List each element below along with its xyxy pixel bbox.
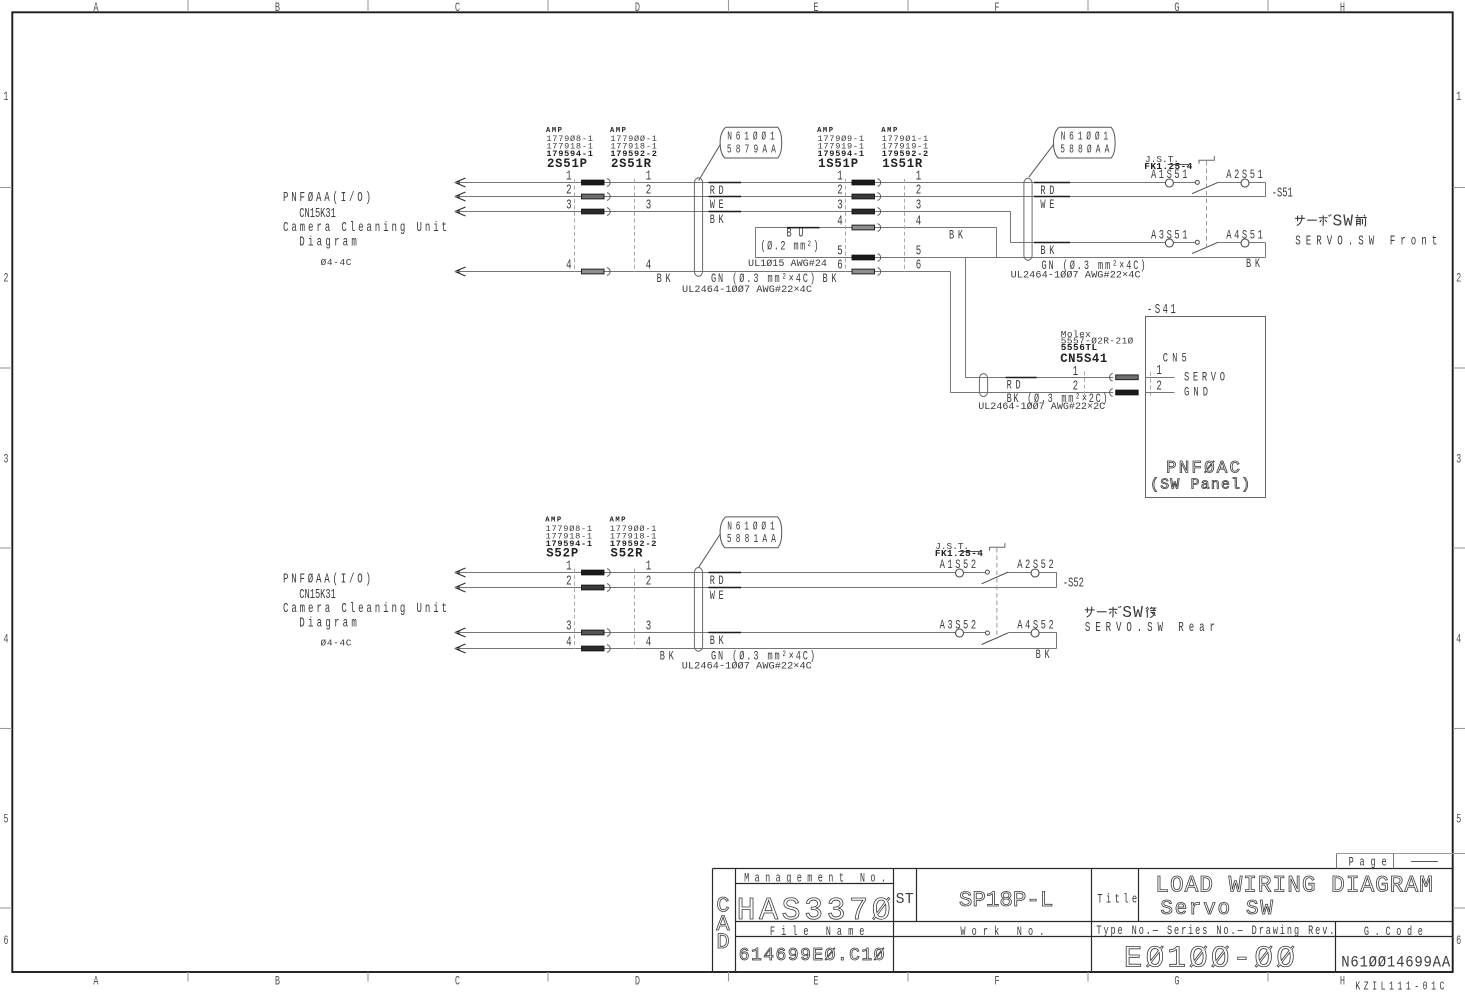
2S51 dashed separation lines (574, 179, 576, 272)
switch actuator bracket (lower) (990, 543, 1005, 551)
cable N61001 5879AA callout (699, 127, 782, 180)
switch loop vertical -S52 upper (1056, 573, 1058, 588)
arrow wire 2 (lower) (454, 583, 465, 592)
switch S52 lower fixed contact dot (985, 631, 989, 635)
svg-text:6: 6 (1456, 934, 1461, 948)
svg-text:-S51: -S51 (1272, 185, 1293, 200)
svg-text:SW: SW (1333, 213, 1354, 231)
svg-text:2: 2 (1156, 379, 1162, 394)
svg-text:1: 1 (837, 169, 843, 184)
arrow wire 4 (454, 267, 465, 276)
wire 3 BK segment to switch (1011, 242, 1166, 244)
svg-text:G: G (1174, 2, 1179, 16)
svg-text:3: 3 (837, 198, 843, 213)
wire blade to A2S52 (1008, 572, 1031, 574)
svg-text:6: 6 (3, 934, 8, 948)
wire 1 RD net (lower) (455, 572, 956, 574)
svg-text:(Ø.2 mm²): (Ø.2 mm²) (761, 240, 819, 254)
svg-text:HAS337Ø: HAS337Ø (737, 894, 891, 929)
wire 3 BK net (lower) (455, 632, 956, 634)
wire pin6 drop to CN5S41 (950, 272, 952, 393)
switch J.S.T. FK1.25-4 label (lower) (935, 541, 983, 559)
svg-text:UL2464-1ØØ7 AWG#22×2C: UL2464-1ØØ7 AWG#22×2C (978, 401, 1105, 413)
wire A3S52 to contact dot (964, 632, 986, 634)
svg-text:B: B (275, 2, 281, 16)
wire 3 left segment (455, 211, 1011, 213)
arrow wire 4 (lower) (454, 644, 465, 653)
svg-text:3: 3 (1456, 453, 1461, 467)
svg-text:CN5: CN5 (1163, 352, 1187, 366)
svg-text:3: 3 (646, 198, 652, 213)
svg-text:4: 4 (646, 258, 652, 273)
svg-text:2: 2 (1456, 272, 1461, 286)
wire label RD (S52 cable) (709, 573, 742, 589)
svg-text:GND: GND (1184, 386, 1208, 400)
svg-text:4: 4 (1456, 633, 1461, 647)
wire 3 drop (1010, 212, 1012, 243)
label CAD (716, 894, 730, 956)
connector CN5S41 part numbers Molex (1060, 329, 1133, 366)
S52 contact pin1 (582, 569, 611, 577)
CN5S41 contact pin1 (1110, 373, 1139, 381)
2S51 contact pin2 (582, 193, 611, 201)
1S51 contact pin5 (852, 254, 881, 262)
svg-text:4: 4 (646, 635, 652, 650)
wire pin5 drop to CN5S41 (965, 258, 967, 378)
wire label RD (left cable) (709, 183, 742, 199)
svg-text:3: 3 (566, 198, 572, 213)
wire label BK (left cable) (709, 212, 742, 228)
svg-text:4: 4 (3, 633, 8, 647)
terminal A2S51 (1241, 179, 1249, 187)
1S51 contact pin1 (852, 179, 881, 187)
terminal A1S51 (1165, 179, 1173, 187)
switch S52 lower blade (982, 633, 1009, 645)
wire A2S52 to -S52 vertical (1039, 572, 1056, 574)
switch S52 upper fixed contact dot (985, 570, 989, 574)
wire A4S52 to -S52 vertical (1039, 632, 1056, 634)
svg-text:H: H (1340, 975, 1345, 989)
svg-text:H: H (1340, 2, 1345, 16)
svg-text:CN15K31: CN15K31 (299, 587, 336, 602)
svg-text:PNFØAA(I/O): PNFØAA(I/O) (283, 572, 371, 587)
arrow wire 2 (454, 192, 465, 201)
PNF0AC SW Panel box (1146, 317, 1266, 498)
1S51 pin numbers right (916, 169, 922, 273)
wire label RD (right cable) (1034, 183, 1070, 199)
wire label WE (S52 cable) (709, 588, 742, 604)
wire A4S51 to -S51 vertical (1249, 242, 1265, 244)
terminal A4S52 (1031, 629, 1039, 637)
wire A2S51 to -S51 vertical (1249, 182, 1265, 184)
wire label BK (right cable) (1034, 243, 1070, 259)
svg-text:G: G (1174, 975, 1179, 989)
svg-text:5: 5 (3, 813, 8, 827)
terminal A1S52 (956, 569, 964, 577)
connector 1S51R part numbers (881, 127, 928, 171)
connector 1S51P part numbers (817, 127, 864, 171)
wire 2 WE return (lower) (455, 587, 1057, 589)
2S51 contact pin1 (582, 179, 611, 187)
wire label BK (S52 cable) (709, 633, 742, 649)
wire A1S51 to contact dot (1174, 182, 1196, 184)
svg-text:D: D (716, 930, 729, 955)
terminal A2S52 (1031, 569, 1039, 577)
svg-text:N61ØØ14699AA: N61ØØ14699AA (1341, 955, 1450, 972)
svg-text:2: 2 (646, 183, 652, 198)
svg-text:C: C (455, 975, 460, 989)
label PNF0AA(I/O) Camera Cleaning Unit Diagram (lower) (283, 572, 447, 648)
svg-text:D: D (635, 2, 640, 16)
connector 2S51R part numbers (610, 127, 657, 171)
S52 contact pin2 (582, 584, 611, 592)
CN5 pin 1 stub (1146, 364, 1175, 379)
svg-text:4: 4 (837, 214, 843, 229)
S52 pin numbers left (566, 559, 572, 650)
svg-text:-S52: -S52 (1063, 575, 1084, 590)
svg-text:(SW Panel): (SW Panel) (1150, 478, 1250, 494)
switch S51 upper blade (1192, 182, 1218, 193)
label Servo SW Rear (Japanese) (1085, 604, 1156, 622)
svg-text:2: 2 (837, 183, 843, 198)
svg-text:UL2464-1ØØ7 AWG#22×4C: UL2464-1ØØ7 AWG#22×4C (682, 284, 812, 296)
connector 2S51P part numbers (546, 127, 593, 171)
svg-text:1: 1 (566, 559, 572, 574)
wire CN5S41 pin1 RD (966, 377, 1114, 379)
svg-text:1: 1 (1073, 365, 1079, 380)
svg-text:D: D (635, 975, 640, 989)
wire label RD (S41 cable) (1006, 378, 1037, 394)
svg-text:2: 2 (646, 574, 652, 589)
1S51 pin numbers left (837, 169, 843, 273)
1S51 contact pin3 (852, 208, 881, 216)
svg-text:B: B (275, 975, 281, 989)
svg-text:5: 5 (837, 244, 843, 259)
cable sheath oval CN5S41 (979, 374, 987, 397)
svg-text:3: 3 (566, 619, 572, 634)
CN5 pin 2 stub (1146, 379, 1175, 394)
BU box left edge (755, 228, 757, 258)
svg-text:Ø4-4C: Ø4-4C (321, 257, 352, 268)
wire blade to A4S51 (1218, 242, 1241, 244)
arrow wire 1 (lower) (454, 568, 465, 577)
1S51 dashed separation lines (845, 179, 847, 272)
2S51 pin numbers right (646, 169, 652, 273)
cable N61001 5880AA callout (1029, 127, 1115, 177)
wire BU jumper box top (756, 227, 997, 229)
svg-text:1: 1 (646, 559, 652, 574)
svg-text:2: 2 (566, 183, 572, 198)
2S51 contact pin4 (582, 268, 611, 276)
connector S52P part numbers (545, 517, 592, 561)
svg-text:4: 4 (916, 214, 922, 229)
switch S51 upper fixed contact dot (1195, 180, 1199, 184)
BU jumper label (761, 227, 820, 254)
1S51 contact pin6 (852, 268, 881, 276)
svg-text:1: 1 (1456, 91, 1461, 105)
S52 pin numbers right (646, 559, 652, 650)
svg-text:3: 3 (916, 198, 922, 213)
svg-text:ST: ST (896, 892, 914, 908)
cable sheath oval 2S51 (694, 178, 702, 276)
terminal A4S51 (1241, 239, 1249, 247)
switch S51 lower fixed contact dot (1195, 240, 1199, 244)
svg-text:3: 3 (3, 453, 8, 467)
cable sheath oval S52 (694, 568, 702, 652)
S52 dashed separation lines (574, 569, 576, 650)
label PNF0AA(I/O) Camera Cleaning Unit Diagram (283, 190, 447, 268)
svg-text:CN15K31: CN15K31 (299, 206, 336, 221)
svg-text:SP18P-L: SP18P-L (959, 887, 1054, 913)
svg-text:2: 2 (566, 574, 572, 589)
svg-text:E: E (813, 2, 818, 16)
switch actuator bracket (1199, 156, 1214, 164)
switch loop vertical -S51 upper (1265, 183, 1267, 197)
svg-text:F: F (994, 975, 999, 989)
svg-text:C: C (455, 2, 460, 16)
svg-text:1: 1 (3, 91, 8, 105)
switch loop vertical -S51 lower (1265, 243, 1267, 258)
wire CN5S41 pin2 BK (951, 392, 1114, 394)
svg-text:6: 6 (837, 258, 843, 273)
wire A1S52 to contact dot (964, 572, 986, 574)
svg-text:LOAD WIRING DIAGRAM: LOAD WIRING DIAGRAM (1155, 873, 1433, 899)
wire label WE (left cable) (709, 197, 742, 213)
S52 contact pin3 (582, 629, 611, 637)
svg-text:A: A (93, 2, 99, 16)
1S51 contact pin2 (852, 193, 881, 201)
S52 contact pin4 (582, 645, 611, 653)
svg-text:1: 1 (1156, 364, 1162, 379)
terminal A3S51 (1165, 239, 1173, 247)
svg-text:CN5S41: CN5S41 (1060, 352, 1107, 366)
terminal A3S52 (956, 629, 964, 637)
cable sheath oval 1S51 (1024, 178, 1032, 260)
arrow wire 3 (lower) (454, 628, 465, 637)
svg-text:Servo SW: Servo SW (1160, 898, 1273, 921)
svg-text:3: 3 (646, 619, 652, 634)
switch linkage dashed line (1206, 161, 1208, 247)
svg-text:614699EØ.C1Ø: 614699EØ.C1Ø (739, 946, 885, 966)
wire blade to A4S52 (1008, 632, 1031, 634)
wire 2 WE net return (455, 196, 1266, 198)
svg-text:UL1Ø15 AWG#24: UL1Ø15 AWG#24 (748, 258, 827, 270)
Page box (1337, 854, 1465, 869)
svg-text:2: 2 (916, 183, 922, 198)
svg-text:1: 1 (916, 169, 922, 184)
2S51 pin numbers left (566, 169, 572, 273)
wire label WE (right cable) (1034, 197, 1070, 213)
wire GN return / pin5 line (756, 257, 1266, 259)
wire 4 GN return (lower) (455, 648, 1057, 650)
wire A3S51 to contact dot (1174, 242, 1196, 244)
svg-text:5: 5 (1456, 813, 1461, 827)
CN5S41 contact pin2 (1110, 389, 1139, 397)
cable N61001 5881AA callout (699, 517, 782, 567)
wire 4 BK to 1S51P pin6 (455, 271, 951, 273)
title block outline (713, 869, 1454, 973)
svg-text:5: 5 (916, 244, 922, 259)
svg-text:F: F (994, 2, 999, 16)
label Servo SW Front (Japanese) (1295, 213, 1367, 231)
svg-text:S52R: S52R (611, 546, 643, 560)
arrow wire 1 to CN15K31 (454, 178, 465, 187)
switch loop vertical -S52 lower (1056, 633, 1058, 649)
svg-text:2: 2 (3, 272, 8, 286)
svg-text:Ø4-4C: Ø4-4C (321, 637, 352, 648)
svg-text:S52P: S52P (546, 546, 578, 560)
svg-text:FK1.25-4: FK1.25-4 (935, 548, 983, 559)
svg-text:File Name: File Name (770, 925, 865, 939)
switch linkage dashed line (lower) (996, 548, 998, 637)
arrow wire 3 (454, 207, 465, 216)
svg-text:1: 1 (566, 169, 572, 184)
switch S51 lower blade (1192, 242, 1218, 253)
svg-text:UL2464-1ØØ7 AWG#22×4C: UL2464-1ØØ7 AWG#22×4C (682, 661, 812, 673)
CN5S41 dashed separation line (1084, 372, 1086, 398)
wire 1 RD net (455, 182, 1166, 184)
1S51 contact pin4 (852, 224, 881, 232)
svg-text:UL2464-1ØØ7 AWG#22×4C: UL2464-1ØØ7 AWG#22×4C (1011, 270, 1141, 282)
switch J.S.T. FK1.25-4 label (1144, 154, 1192, 172)
svg-text:PNFØAA(I/O): PNFØAA(I/O) (283, 190, 371, 205)
connector S52R part numbers (610, 517, 657, 561)
BU box right edge / pin4 drop (996, 228, 998, 258)
svg-text:4: 4 (566, 258, 572, 273)
S41 box edge dashed segment (1150, 372, 1152, 397)
switch S52 upper blade (982, 572, 1009, 584)
wire blade to A2S51 (1218, 182, 1241, 184)
page number dash (1411, 861, 1438, 863)
svg-text:1: 1 (646, 169, 652, 184)
svg-text:E: E (813, 975, 818, 989)
2S51 contact pin3 (582, 208, 611, 216)
svg-text:A: A (93, 975, 99, 989)
svg-text:6: 6 (916, 258, 922, 273)
svg-text:4: 4 (566, 635, 572, 650)
